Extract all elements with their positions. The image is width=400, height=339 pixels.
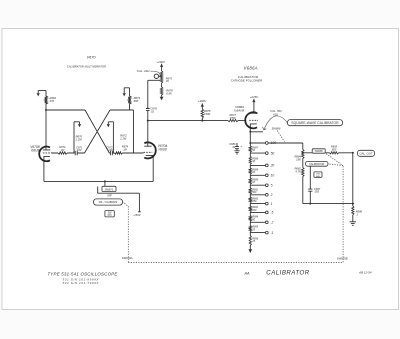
svg-text:V670: V670 — [87, 56, 97, 60]
svg-text:.005: .005 — [314, 190, 320, 194]
svg-text:5: 5 — [271, 183, 273, 187]
svg-text:68K: 68K — [134, 99, 139, 103]
svg-text:15K: 15K — [296, 157, 301, 161]
svg-text:2.2M: 2.2M — [119, 137, 127, 141]
svg-text:100: 100 — [108, 148, 113, 152]
svg-text:2K: 2K — [251, 171, 255, 174]
svg-text:SW670: SW670 — [105, 188, 114, 191]
svg-text:AB 12-54: AB 12-54 — [358, 270, 372, 274]
svg-text:CAL. OUT: CAL. OUT — [359, 152, 373, 156]
svg-text:10: 10 — [271, 174, 275, 178]
svg-text:5K: 5K — [252, 149, 255, 152]
svg-text:4.7K: 4.7K — [295, 170, 301, 174]
svg-text:SW685: SW685 — [315, 150, 324, 153]
svg-text:CAL. ADJ.: CAL. ADJ. — [137, 69, 151, 73]
svg-text:.01: .01 — [150, 110, 154, 114]
svg-text:50: 50 — [271, 151, 275, 155]
svg-text:1K: 1K — [252, 181, 255, 184]
svg-text:½6U8: ½6U8 — [31, 149, 40, 153]
svg-text:CALIBRATOR MULTIVIBRATOR: CALIBRATOR MULTIVIBRATOR — [67, 65, 106, 68]
svg-text:2: 2 — [270, 193, 273, 197]
svg-text:100: 100 — [252, 209, 257, 212]
svg-text:150K: 150K — [204, 112, 210, 116]
svg-text:CALIBRATOR: CALIBRATOR — [266, 269, 309, 276]
svg-text:+225V: +225V — [250, 95, 260, 99]
svg-text:½6U8: ½6U8 — [158, 148, 167, 152]
svg-text:SW686: SW686 — [272, 126, 281, 130]
svg-text:.2: .2 — [271, 221, 274, 225]
svg-text:6.8K: 6.8K — [166, 92, 172, 96]
svg-text:SQUARE-WAVE CALIBRATOR: SQUARE-WAVE CALIBRATOR — [291, 121, 339, 125]
svg-text:AA: AA — [243, 271, 250, 275]
svg-text:541 S/N 101-7999X: 541 S/N 101-7999X — [63, 281, 100, 285]
svg-text:470K: 470K — [230, 116, 236, 120]
svg-text:½6AN8: ½6AN8 — [234, 108, 244, 112]
svg-text:SW670B: SW670B — [337, 257, 348, 261]
svg-text:1: 1 — [271, 202, 273, 206]
svg-text:+100V: +100V — [198, 99, 208, 103]
svg-text:100: 100 — [271, 141, 277, 145]
svg-text:600: 600 — [332, 147, 337, 151]
svg-text:500: 500 — [252, 191, 257, 194]
svg-text:20: 20 — [270, 164, 275, 168]
svg-text:.1: .1 — [271, 231, 274, 235]
svg-text:2K: 2K — [165, 79, 169, 83]
svg-text:CALIBRATOR: CALIBRATOR — [309, 163, 324, 166]
svg-text:V686A: V686A — [244, 66, 258, 71]
svg-text:-150V: -150V — [133, 213, 142, 217]
svg-text:CATHODE FOLLOWER: CATHODE FOLLOWER — [231, 79, 263, 83]
svg-text:TYPE 531-541 OSCILLOSCOPE: TYPE 531-541 OSCILLOSCOPE — [48, 272, 118, 277]
svg-text:ADJ.: ADJ. — [272, 112, 279, 116]
svg-text:+100V: +100V — [156, 60, 166, 64]
svg-text:.5: .5 — [271, 211, 274, 215]
svg-text:2.2M: 2.2M — [75, 138, 83, 142]
svg-text:25: 25 — [251, 228, 255, 231]
svg-text:OFF: OFF — [107, 195, 112, 198]
svg-text:100: 100 — [77, 148, 82, 152]
svg-text:3K: 3K — [252, 160, 255, 163]
svg-text:47K: 47K — [50, 99, 55, 103]
svg-text:MIL - CALIBRATE: MIL - CALIBRATE — [99, 201, 118, 204]
svg-text:SW670A: SW670A — [122, 256, 133, 260]
svg-text:250: 250 — [251, 200, 257, 203]
svg-text:.01: .01 — [232, 145, 236, 149]
